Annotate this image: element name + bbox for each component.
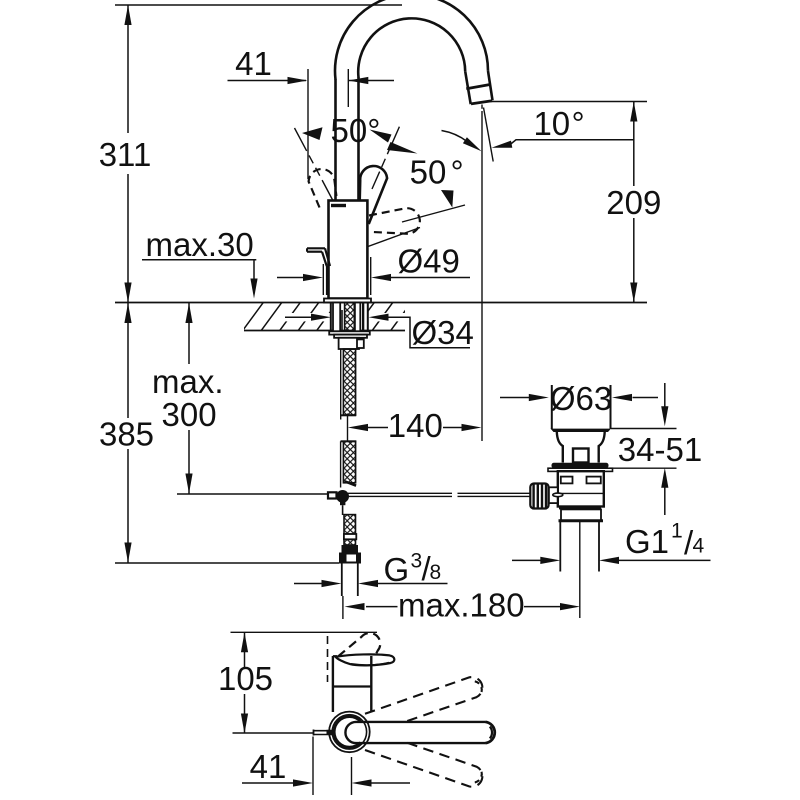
dimension 34-51: [611, 383, 677, 515]
plan lever paddle: [336, 654, 395, 665]
spout swivel boundary line: [402, 205, 465, 222]
spout arc outer: [335, 0, 488, 79]
svg-text:Ø49: Ø49: [398, 243, 460, 280]
label 50deg lower: [410, 154, 464, 191]
plan spout capsule: [345, 722, 494, 743]
spout riser walls: [334, 79, 337, 201]
drain flange: [548, 463, 613, 472]
plan body: [328, 636, 372, 712]
plan view: extension line lever tip: [231, 631, 378, 633]
horizontal pop-up rod: [348, 493, 531, 496]
wire: top extension line to spout apex: [115, 4, 402, 6]
svg-text:G1: G1: [625, 523, 669, 560]
rod clevis: [328, 492, 337, 498]
dimension 311 vertical line: [124, 5, 131, 303]
base plinth: [324, 299, 371, 303]
knurled adjusting nut: [530, 484, 548, 509]
svg-text:105: 105: [218, 660, 273, 697]
lever angle line center (dash): [372, 127, 399, 189]
drain lock nut: [559, 509, 604, 520]
G3/8 connection nut: [339, 553, 361, 564]
supply hose upper segment: [341, 349, 357, 420]
aerator joint line: [466, 84, 491, 88]
svg-text:8: 8: [430, 561, 442, 584]
water outlet extension line down to 140 dim: [481, 105, 483, 442]
svg-text:Ø63: Ø63: [550, 380, 612, 417]
plan dashed spout lower: [365, 741, 482, 787]
swivel arc arrow to outlet line: [442, 131, 482, 152]
faucet centerline below pipe: [342, 596, 344, 619]
svg-text:50: 50: [410, 154, 447, 191]
dimension 209: [486, 102, 647, 303]
svg-text:3: 3: [411, 550, 423, 573]
dimension 385: [115, 303, 339, 563]
svg-text:311: 311: [99, 136, 152, 173]
plan escutcheon circles: [329, 712, 370, 753]
threaded shank in hole: [331, 303, 368, 350]
rod boss on drain: [549, 487, 558, 503]
countertop surface line: [115, 302, 647, 304]
washer under counter: [329, 331, 370, 334]
countertop bottom line: [244, 330, 405, 332]
faucet body: [329, 201, 368, 299]
dimension max.30: [142, 260, 258, 299]
dimension 10deg leader and arrow: [492, 140, 634, 148]
lever dashed left (open position): [309, 169, 337, 207]
arrow on left lever line: [302, 127, 323, 140]
drain tailpipe: [560, 522, 599, 572]
svg-text:34-51: 34-51: [618, 431, 702, 468]
svg-text:max.30: max.30: [146, 226, 254, 263]
dimension max 300: [177, 303, 329, 494]
spout end walls: [465, 71, 492, 104]
G3/8 pipe: [342, 564, 358, 597]
drain overflow slot: [573, 449, 589, 463]
flange nut upper: [334, 335, 367, 338]
svg-text:°: °: [451, 154, 464, 191]
supply hose lower segment: [341, 441, 357, 487]
outlet face: [471, 101, 492, 104]
dimension diameter 49: [277, 257, 470, 295]
clamp screw: [553, 493, 563, 503]
plan dashed spout upper: [365, 677, 482, 723]
svg-text:50°: 50°: [331, 112, 381, 149]
svg-text:max.180: max.180: [398, 587, 525, 624]
dimension 41 plan: [242, 737, 410, 796]
svg-text:385: 385: [99, 416, 154, 453]
crossing arrows at center lever line: [370, 130, 418, 154]
drain centerline: [579, 522, 581, 618]
lever solid (up position): [360, 166, 387, 224]
svg-text:300: 300: [162, 396, 217, 433]
svg-text:G: G: [384, 551, 410, 588]
label G3/8: [384, 550, 442, 589]
swivel centerline lower-left: [357, 228, 420, 251]
10 degree tilted stream line: [484, 108, 494, 162]
drain lower dark band: [559, 506, 601, 509]
svg-text:°: °: [572, 105, 585, 142]
arrow on swivel boundary: [441, 190, 454, 208]
drain neck: [557, 432, 605, 463]
drain valve: dimension diameter 63: [500, 385, 658, 429]
svg-text:10: 10: [533, 105, 570, 142]
svg-text:max.: max.: [152, 363, 224, 400]
label G1 1/4: [625, 520, 705, 562]
lever angle line left (dash): [295, 128, 340, 212]
drain body: [558, 471, 604, 506]
svg-text:4: 4: [693, 535, 705, 558]
dimension max.180: [345, 603, 581, 610]
countertop hatching: [242, 302, 412, 332]
dimension 140: [348, 414, 482, 441]
hose below ball: [342, 505, 359, 552]
plan pop-up rod: [314, 730, 333, 736]
svg-text:Ø34: Ø34: [412, 314, 474, 351]
white corridor for dim 34 line: [280, 313, 409, 321]
dimension G3/8: [294, 580, 448, 587]
mounting nut: [339, 338, 364, 349]
spout arc inner: [358, 18, 465, 77]
svg-text:41: 41: [250, 748, 287, 785]
svg-text:1: 1: [671, 520, 683, 543]
svg-text:140: 140: [388, 407, 443, 444]
svg-text:41: 41: [235, 45, 272, 82]
plan lever dashed tip: [338, 633, 380, 658]
drain plug lip: [551, 429, 612, 432]
dimension G1 1/4: [512, 557, 711, 564]
label max 300: [152, 363, 224, 433]
pop-up rod knob: [307, 248, 330, 295]
pop-up rod ball joint: [336, 490, 349, 505]
lever dashed lower right (down position): [369, 208, 420, 234]
dimension 41 top: [228, 69, 395, 179]
label 10deg: [533, 105, 584, 142]
dimension diameter 34: [285, 314, 470, 348]
dimension 105: [233, 632, 314, 733]
svg-text:209: 209: [606, 184, 661, 221]
